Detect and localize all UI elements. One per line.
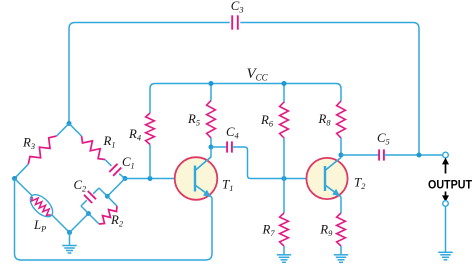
terminal output bottom xyxy=(443,201,449,207)
transistor T1 xyxy=(175,157,234,200)
wire T2 emitter xyxy=(340,197,342,213)
svg-text:T2: T2 xyxy=(354,175,365,192)
wire C2/R2 block to right node xyxy=(107,179,125,197)
wire bridge right node to T1 base xyxy=(125,178,194,180)
node R6 top on VCC rail xyxy=(282,81,287,86)
node C2/R2 lower-left xyxy=(86,211,91,216)
resistor R1 xyxy=(69,124,116,160)
ground bridge xyxy=(62,233,77,254)
node C2/R2 upper-right xyxy=(105,194,110,199)
wire T1 collector xyxy=(210,147,212,157)
wire top feedback loop right xyxy=(240,23,419,156)
node bridge right xyxy=(123,176,128,181)
node T2 collector / R8 / C5 xyxy=(339,153,344,158)
wire C4 to T2 base xyxy=(232,147,306,179)
svg-text:R7: R7 xyxy=(262,223,276,239)
resistor R5 xyxy=(187,84,215,148)
transistor T2 xyxy=(306,158,365,200)
svg-text:R1: R1 xyxy=(103,134,116,150)
wire C2/R2 block top-right edge xyxy=(99,188,117,206)
resistor R6 xyxy=(260,84,288,179)
wire C5 to output xyxy=(384,154,443,156)
capacitor C1 xyxy=(105,155,135,179)
svg-text:R9: R9 xyxy=(319,223,333,239)
svg-text:VCC: VCC xyxy=(247,66,269,83)
node R6/R7 junction on T2 base line xyxy=(282,176,287,181)
wire VCC rail xyxy=(150,84,341,89)
svg-text:T1: T1 xyxy=(222,177,233,194)
resistor R7 xyxy=(262,179,289,255)
node bridge bottom xyxy=(67,230,72,235)
wire T1 emitter feedback loop xyxy=(15,179,213,261)
resistor R2 xyxy=(99,206,123,229)
inductor LP xyxy=(15,179,70,234)
capacitor C2 xyxy=(74,178,100,206)
resistor R3 xyxy=(15,124,70,179)
svg-text:R8: R8 xyxy=(318,112,332,128)
terminal output top xyxy=(443,152,449,158)
node R4 bottom xyxy=(148,176,153,181)
svg-text:R4: R4 xyxy=(128,127,141,143)
node R5 bottom / T1 collector / C4 xyxy=(209,145,214,150)
capacitor C5 xyxy=(377,131,390,161)
arrow output down xyxy=(442,192,449,203)
wire C2/R2 block bottom-left edge xyxy=(81,206,99,224)
svg-text:R3: R3 xyxy=(22,136,35,152)
wire output bottom to ground xyxy=(445,206,447,252)
svg-text:C4: C4 xyxy=(226,125,239,141)
svg-text:LP: LP xyxy=(33,218,46,234)
svg-text:R5: R5 xyxy=(187,112,200,128)
wire bottom node to C2/R2 block xyxy=(70,214,89,233)
resistor R9 xyxy=(319,213,345,255)
resistor R4 xyxy=(128,89,154,179)
svg-text:C3: C3 xyxy=(231,0,244,15)
ground output xyxy=(438,251,453,253)
node output/top-loop junction xyxy=(417,153,422,158)
wire T2 collector to C5 xyxy=(341,154,379,156)
svg-text:R2: R2 xyxy=(110,213,123,229)
ground R9 xyxy=(334,254,349,256)
capacitor C3 xyxy=(231,0,244,30)
svg-text:C5: C5 xyxy=(377,131,390,147)
svg-text:R6: R6 xyxy=(260,113,274,129)
capacitor C4 xyxy=(211,125,239,153)
resistor R8 xyxy=(318,89,346,156)
wire top feedback loop left xyxy=(69,23,230,124)
node R5 top on VCC rail xyxy=(209,81,214,86)
svg-text:C1: C1 xyxy=(122,155,135,171)
wire T2 collector xyxy=(340,155,342,158)
node bridge top xyxy=(67,121,72,126)
svg-text:C2: C2 xyxy=(74,178,87,194)
ground R7 xyxy=(277,254,292,256)
node bridge left xyxy=(12,176,17,181)
svg-text:OUTPUT: OUTPUT xyxy=(428,178,472,192)
arrow output up xyxy=(442,158,449,174)
